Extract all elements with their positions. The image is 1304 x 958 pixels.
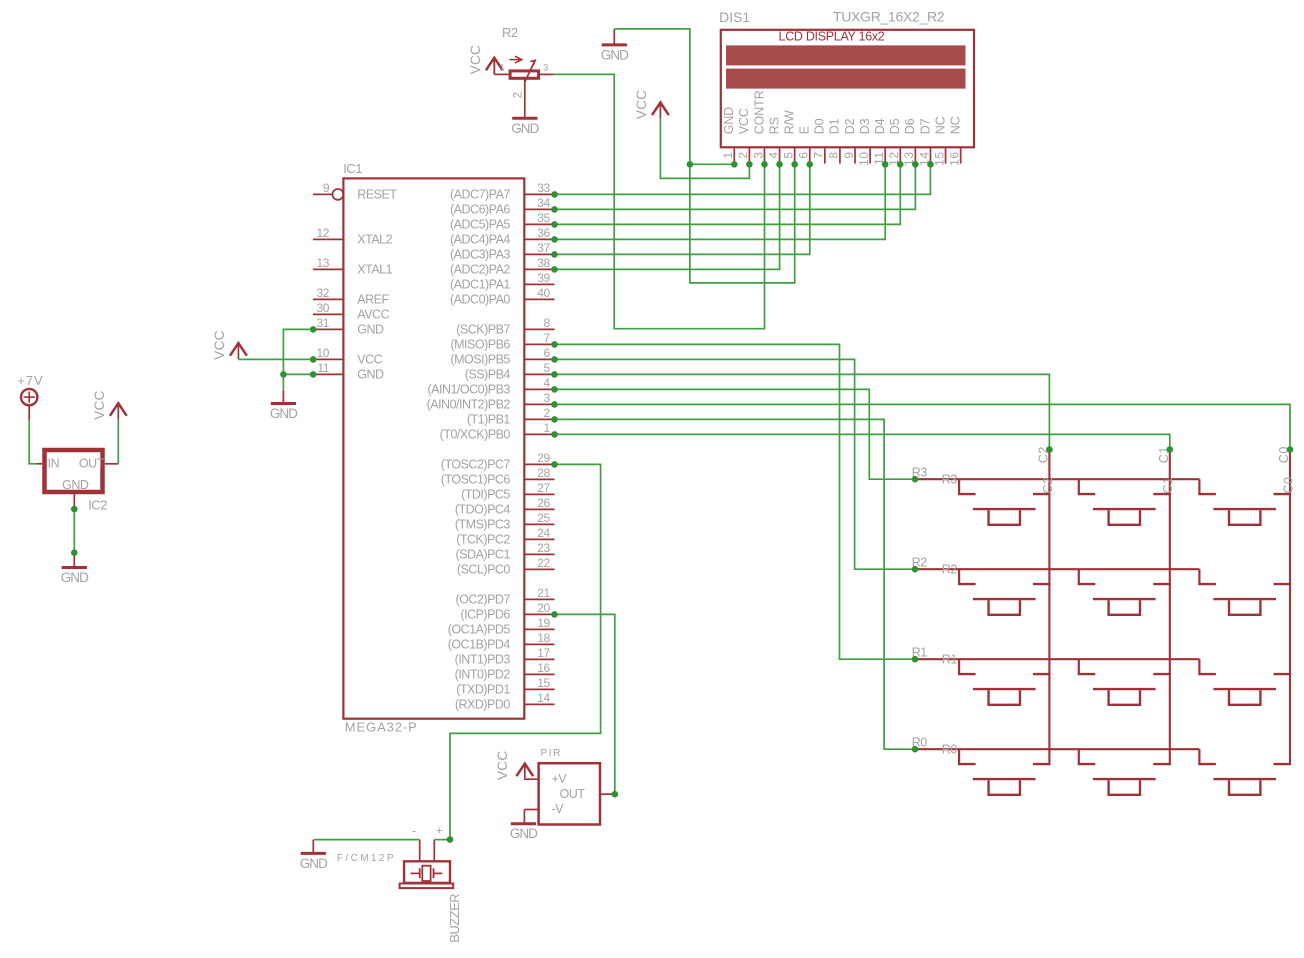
- svg-text:AREF: AREF: [357, 293, 389, 307]
- svg-text:R2: R2: [942, 563, 958, 577]
- svg-text:R2: R2: [502, 25, 518, 40]
- svg-text:(TCK)PC2: (TCK)PC2: [456, 533, 510, 547]
- svg-text:3: 3: [751, 151, 765, 158]
- svg-text:39: 39: [537, 271, 550, 285]
- svg-text:4: 4: [544, 376, 551, 390]
- svg-text:16: 16: [537, 661, 550, 675]
- svg-text:32: 32: [317, 286, 330, 300]
- svg-text:(ADC4)PA4: (ADC4)PA4: [450, 233, 510, 247]
- svg-text:35: 35: [537, 211, 550, 225]
- svg-text:MEGA32-P: MEGA32-P: [345, 719, 418, 734]
- svg-text:(ICP)PD6: (ICP)PD6: [460, 608, 510, 622]
- svg-text:R/W: R/W: [782, 110, 796, 134]
- svg-text:(TMS)PC3: (TMS)PC3: [455, 518, 511, 532]
- svg-text:F/CM12P: F/CM12P: [337, 853, 396, 864]
- svg-text:PIR: PIR: [541, 748, 562, 759]
- svg-text:CONTR: CONTR: [752, 90, 766, 134]
- svg-text:3: 3: [544, 391, 551, 405]
- svg-text:+V: +V: [552, 772, 568, 786]
- svg-text:2: 2: [544, 406, 551, 420]
- svg-text:(T0/XCK)PB0: (T0/XCK)PB0: [440, 428, 511, 442]
- svg-text:DIS1: DIS1: [719, 9, 750, 25]
- svg-text:TUXGR_16X2_R2: TUXGR_16X2_R2: [833, 8, 945, 24]
- svg-text:(OC1A)PD5: (OC1A)PD5: [448, 623, 511, 637]
- svg-text:(SCL)PC0: (SCL)PC0: [457, 563, 511, 577]
- svg-text:29: 29: [537, 451, 550, 465]
- svg-text:3: 3: [543, 62, 548, 73]
- svg-text:(MOSI)PB5: (MOSI)PB5: [450, 353, 510, 367]
- svg-text:(ADC2)PA2: (ADC2)PA2: [450, 263, 510, 277]
- svg-text:(AIN1/OC0)PB3: (AIN1/OC0)PB3: [427, 383, 510, 397]
- svg-text:6: 6: [797, 151, 811, 158]
- svg-text:VCC: VCC: [357, 353, 382, 367]
- svg-text:(SS)PB4: (SS)PB4: [465, 368, 511, 382]
- svg-text:(AIN0/INT2)PB2: (AIN0/INT2)PB2: [427, 398, 511, 412]
- svg-text:(RXD)PD0: (RXD)PD0: [455, 698, 511, 712]
- svg-text:-V: -V: [552, 802, 565, 816]
- svg-text:20: 20: [537, 601, 550, 615]
- svg-text:1: 1: [544, 421, 551, 435]
- svg-text:(OC1B)PD4: (OC1B)PD4: [448, 638, 511, 652]
- svg-text:C1: C1: [1161, 476, 1175, 493]
- svg-text:31: 31: [317, 316, 330, 330]
- svg-text:GND: GND: [510, 826, 538, 841]
- svg-text:15: 15: [537, 676, 550, 690]
- svg-text:40: 40: [537, 286, 550, 300]
- svg-text:13: 13: [317, 256, 330, 270]
- svg-text:VCC: VCC: [212, 330, 227, 359]
- svg-text:5: 5: [781, 151, 795, 158]
- svg-text:(TXD)PD1: (TXD)PD1: [456, 683, 510, 697]
- svg-text:19: 19: [537, 616, 550, 630]
- svg-text:30: 30: [317, 301, 330, 315]
- svg-text:D7: D7: [918, 118, 932, 134]
- svg-text:OUT: OUT: [560, 787, 586, 801]
- svg-text:21: 21: [537, 586, 550, 600]
- svg-text:(INT0)PD2: (INT0)PD2: [455, 668, 511, 682]
- svg-text:(TDO)PC4: (TDO)PC4: [455, 503, 511, 517]
- svg-text:8: 8: [827, 151, 841, 158]
- svg-text:+7V: +7V: [17, 373, 44, 388]
- svg-text:(SDA)PC1: (SDA)PC1: [456, 548, 511, 562]
- svg-text:GND: GND: [357, 323, 384, 337]
- svg-text:23: 23: [537, 541, 550, 555]
- svg-text:BUZZER: BUZZER: [447, 894, 462, 943]
- svg-text:IN: IN: [48, 456, 60, 470]
- svg-text:(SCK)PB7: (SCK)PB7: [456, 323, 510, 337]
- svg-text:GND: GND: [357, 368, 384, 382]
- svg-text:1: 1: [499, 62, 504, 73]
- svg-text:IC1: IC1: [343, 161, 362, 176]
- svg-text:37: 37: [537, 241, 550, 255]
- svg-text:R0: R0: [942, 743, 958, 757]
- svg-text:D2: D2: [843, 118, 857, 134]
- svg-text:GND: GND: [62, 478, 89, 492]
- svg-text:5: 5: [544, 361, 551, 375]
- svg-text:(INT1)PD3: (INT1)PD3: [455, 653, 511, 667]
- svg-text:VCC: VCC: [92, 390, 107, 419]
- svg-text:C2: C2: [1041, 476, 1055, 493]
- svg-text:VCC: VCC: [495, 751, 510, 780]
- svg-text:LCD DISPLAY 16x2: LCD DISPLAY 16x2: [779, 30, 885, 44]
- svg-text:E: E: [798, 126, 812, 134]
- svg-text:12: 12: [317, 226, 330, 240]
- svg-text:GND: GND: [300, 856, 328, 871]
- svg-text:36: 36: [537, 226, 550, 240]
- svg-text:(ADC1)PA1: (ADC1)PA1: [450, 278, 510, 292]
- svg-text:D5: D5: [888, 118, 902, 134]
- svg-text:(MISO)PB6: (MISO)PB6: [450, 338, 510, 352]
- svg-text:NC: NC: [933, 116, 947, 134]
- svg-text:D3: D3: [858, 118, 872, 134]
- svg-text:(OC2)PD7: (OC2)PD7: [456, 593, 511, 607]
- svg-text:9: 9: [842, 151, 856, 158]
- svg-text:(ADC3)PA3: (ADC3)PA3: [450, 248, 510, 262]
- svg-text:VCC: VCC: [468, 45, 483, 74]
- svg-text:8: 8: [544, 316, 551, 330]
- svg-text:1: 1: [721, 151, 735, 158]
- svg-text:RS: RS: [767, 117, 781, 134]
- svg-text:34: 34: [537, 196, 550, 210]
- svg-text:9: 9: [323, 181, 330, 195]
- svg-text:24: 24: [537, 526, 550, 540]
- svg-text:2: 2: [510, 92, 524, 99]
- svg-text:27: 27: [537, 481, 550, 495]
- svg-text:(ADC6)PA6: (ADC6)PA6: [450, 203, 510, 217]
- svg-text:33: 33: [537, 181, 550, 195]
- svg-text:6: 6: [544, 346, 551, 360]
- svg-text:RESET: RESET: [357, 188, 397, 202]
- svg-text:(TOSC2)PC7: (TOSC2)PC7: [441, 458, 511, 472]
- svg-text:IC2: IC2: [88, 497, 107, 512]
- svg-text:7: 7: [544, 331, 551, 345]
- svg-text:10: 10: [857, 151, 871, 166]
- svg-text:+: +: [436, 824, 443, 838]
- svg-text:26: 26: [537, 496, 550, 510]
- svg-text:C0: C0: [1281, 476, 1295, 493]
- svg-text:11: 11: [317, 361, 329, 375]
- svg-text:GND: GND: [601, 47, 629, 62]
- svg-text:10: 10: [317, 346, 330, 360]
- svg-text:GND: GND: [61, 570, 89, 585]
- svg-text:D6: D6: [903, 118, 917, 134]
- svg-text:7: 7: [812, 151, 826, 158]
- svg-text:-: -: [412, 824, 416, 838]
- svg-text:R3: R3: [942, 473, 958, 487]
- svg-text:NC: NC: [948, 116, 962, 134]
- svg-text:(TDI)PC5: (TDI)PC5: [461, 488, 510, 502]
- svg-text:18: 18: [537, 631, 550, 645]
- svg-text:D4: D4: [873, 118, 887, 134]
- svg-text:(TOSC1)PC6: (TOSC1)PC6: [441, 473, 511, 487]
- svg-text:GND: GND: [270, 406, 298, 421]
- svg-text:XTAL2: XTAL2: [357, 233, 392, 247]
- svg-text:16: 16: [947, 151, 961, 166]
- svg-text:14: 14: [537, 691, 550, 705]
- svg-text:OUT: OUT: [79, 456, 105, 470]
- svg-text:2: 2: [736, 151, 750, 158]
- svg-text:15: 15: [932, 151, 946, 166]
- svg-text:R1: R1: [942, 653, 958, 667]
- svg-text:25: 25: [537, 511, 550, 525]
- svg-text:XTAL1: XTAL1: [357, 263, 392, 277]
- svg-text:VCC: VCC: [634, 90, 649, 119]
- svg-text:GND: GND: [722, 107, 736, 135]
- svg-text:AVCC: AVCC: [357, 308, 389, 322]
- svg-text:VCC: VCC: [737, 108, 751, 134]
- svg-text:(ADC5)PA5: (ADC5)PA5: [450, 218, 510, 232]
- svg-text:22: 22: [537, 556, 550, 570]
- svg-text:4: 4: [766, 151, 780, 158]
- svg-text:38: 38: [537, 256, 550, 270]
- svg-text:GND: GND: [511, 121, 539, 136]
- svg-text:28: 28: [537, 466, 550, 480]
- svg-text:D0: D0: [813, 118, 827, 134]
- svg-text:(T1)PB1: (T1)PB1: [467, 413, 511, 427]
- svg-text:D1: D1: [828, 118, 842, 134]
- svg-text:(ADC0)PA0: (ADC0)PA0: [450, 293, 510, 307]
- svg-text:17: 17: [537, 646, 550, 660]
- svg-text:(ADC7)PA7: (ADC7)PA7: [450, 188, 510, 202]
